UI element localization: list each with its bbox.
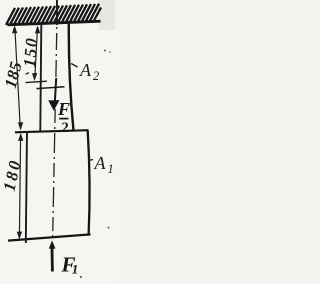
force F2 arrow [55, 78, 56, 102]
ceiling edge line [8, 21, 101, 25]
svg-text:A: A [94, 153, 107, 173]
arrowhead 180 bottom [17, 232, 22, 240]
svg-text:2: 2 [93, 69, 99, 83]
arrowhead 150 bottom [32, 73, 37, 81]
arrowhead 150 top [35, 25, 40, 33]
paper background [0, 0, 115, 284]
stray mark below 150 [26, 73, 29, 75]
F2 section line [37, 87, 65, 89]
bar A1 right edge [88, 131, 90, 235]
bar A2 left edge [40, 24, 41, 132]
junction line (top of A1) [15, 130, 89, 132]
dimension line 180 [19, 135, 20, 239]
bar A1 left edge [26, 131, 27, 243]
leader A1 [89, 160, 94, 161]
svg-text:A: A [79, 60, 92, 80]
bar A2 right edge [69, 23, 74, 132]
centerline (dash-dot axis) [56, 27, 57, 83]
leader A2 [71, 64, 77, 68]
speck dots [104, 50, 106, 52]
svg-text:150: 150 [20, 36, 42, 68]
svg-text:1: 1 [72, 262, 79, 277]
arrowhead 185 bottom [18, 122, 23, 130]
centerline top (through hatch) [56, 0, 58, 25]
bar A1 bottom edge [8, 234, 91, 240]
force F1 arrow [49, 240, 56, 248]
svg-text:1: 1 [108, 162, 114, 176]
arrowhead 185 top [12, 25, 17, 33]
150 extension line [26, 81, 48, 82]
svg-text:2: 2 [62, 120, 69, 136]
ceiling hatch [6, 4, 101, 25]
svg-text:F: F [57, 99, 70, 119]
dimension line 150 [35, 27, 38, 79]
dimension line 185 [15, 27, 20, 129]
arrowhead 180 top [18, 133, 23, 141]
